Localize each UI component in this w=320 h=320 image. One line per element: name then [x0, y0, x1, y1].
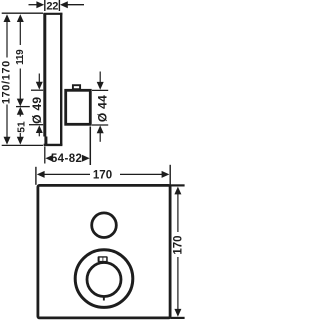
- dim dia44: bottom extension line: [92, 124, 108, 126]
- side view: trim top edge: [43, 13, 62, 15]
- extension line bottom (side view): [2, 144, 43, 146]
- side view: valve box top tab: [73, 85, 80, 89]
- svg-text:170/170: 170/170: [1, 60, 13, 104]
- dim 51: bottom arrow: [19, 133, 21, 139]
- dim 22: left arrow: [29, 4, 39, 6]
- svg-text:170: 170: [173, 235, 185, 254]
- side view: valve cartridge box: [66, 90, 91, 124]
- dim dia49: top extension line: [31, 89, 43, 91]
- dim 170 top: left extension line: [35, 167, 37, 185]
- dim 54-82: left arrow: [45, 155, 53, 162]
- svg-text:119: 119: [15, 49, 26, 65]
- svg-text:22: 22: [46, 0, 58, 12]
- front view: safety stop tab on handle: [98, 256, 108, 262]
- svg-text:54-82: 54-82: [51, 153, 82, 165]
- dim 170/170: bottom arrow: [6, 105, 8, 140]
- svg-text:51: 51: [17, 121, 28, 133]
- dim dia49: bottom arrow: [36, 125, 43, 133]
- svg-text:Ø 49: Ø 49: [30, 97, 44, 124]
- dim 22: right extension line: [58, 0, 60, 11]
- front view: handle inner circle: [87, 263, 121, 297]
- dim 22: left extension line: [44, 0, 46, 11]
- side view: trim front face (left edge): [45, 13, 46, 145]
- dim 170 right: dimension line with arrows: [177, 193, 179, 232]
- svg-text:Ø 44: Ø 44: [95, 95, 109, 122]
- dim 22: right arrow: [66, 4, 84, 6]
- front view: handle outer circle: [75, 250, 133, 308]
- dim 170 top: dimension line with arrows: [44, 173, 90, 175]
- dim 54-82: left extension line: [44, 147, 46, 164]
- dim dia44: top arrow: [99, 72, 101, 83]
- dim 170/170: top arrow: [4, 14, 11, 22]
- dim dia49: bottom extension line: [29, 124, 43, 126]
- side view: wall plate (right edge): [60, 13, 62, 145]
- front view: escutcheon square plate: [38, 185, 170, 318]
- dim 170 right: top extension line: [171, 184, 185, 186]
- extension line 119/51 split: [16, 106, 30, 108]
- dim dia44: top extension line: [92, 89, 108, 91]
- dim dia44: bottom arrow: [97, 125, 104, 133]
- extension line top (side view): [2, 12, 43, 14]
- dim 170 top: right extension line: [169, 165, 171, 189]
- dim dia49: top arrow: [38, 74, 40, 83]
- front view: select button circle: [92, 213, 117, 238]
- side view: trim bottom edge: [44, 144, 63, 146]
- dim 51: top arrow: [17, 107, 24, 115]
- dim 170 right: bottom extension line: [171, 317, 185, 319]
- dim 119: bottom arrow: [19, 69, 21, 100]
- front view: handle index tick: [103, 297, 105, 300]
- svg-text:170: 170: [93, 170, 112, 182]
- dim 119: top arrow: [17, 14, 24, 22]
- dim 54-82: right extension line: [89, 127, 91, 166]
- dim 54-82: right arrow: [82, 155, 90, 162]
